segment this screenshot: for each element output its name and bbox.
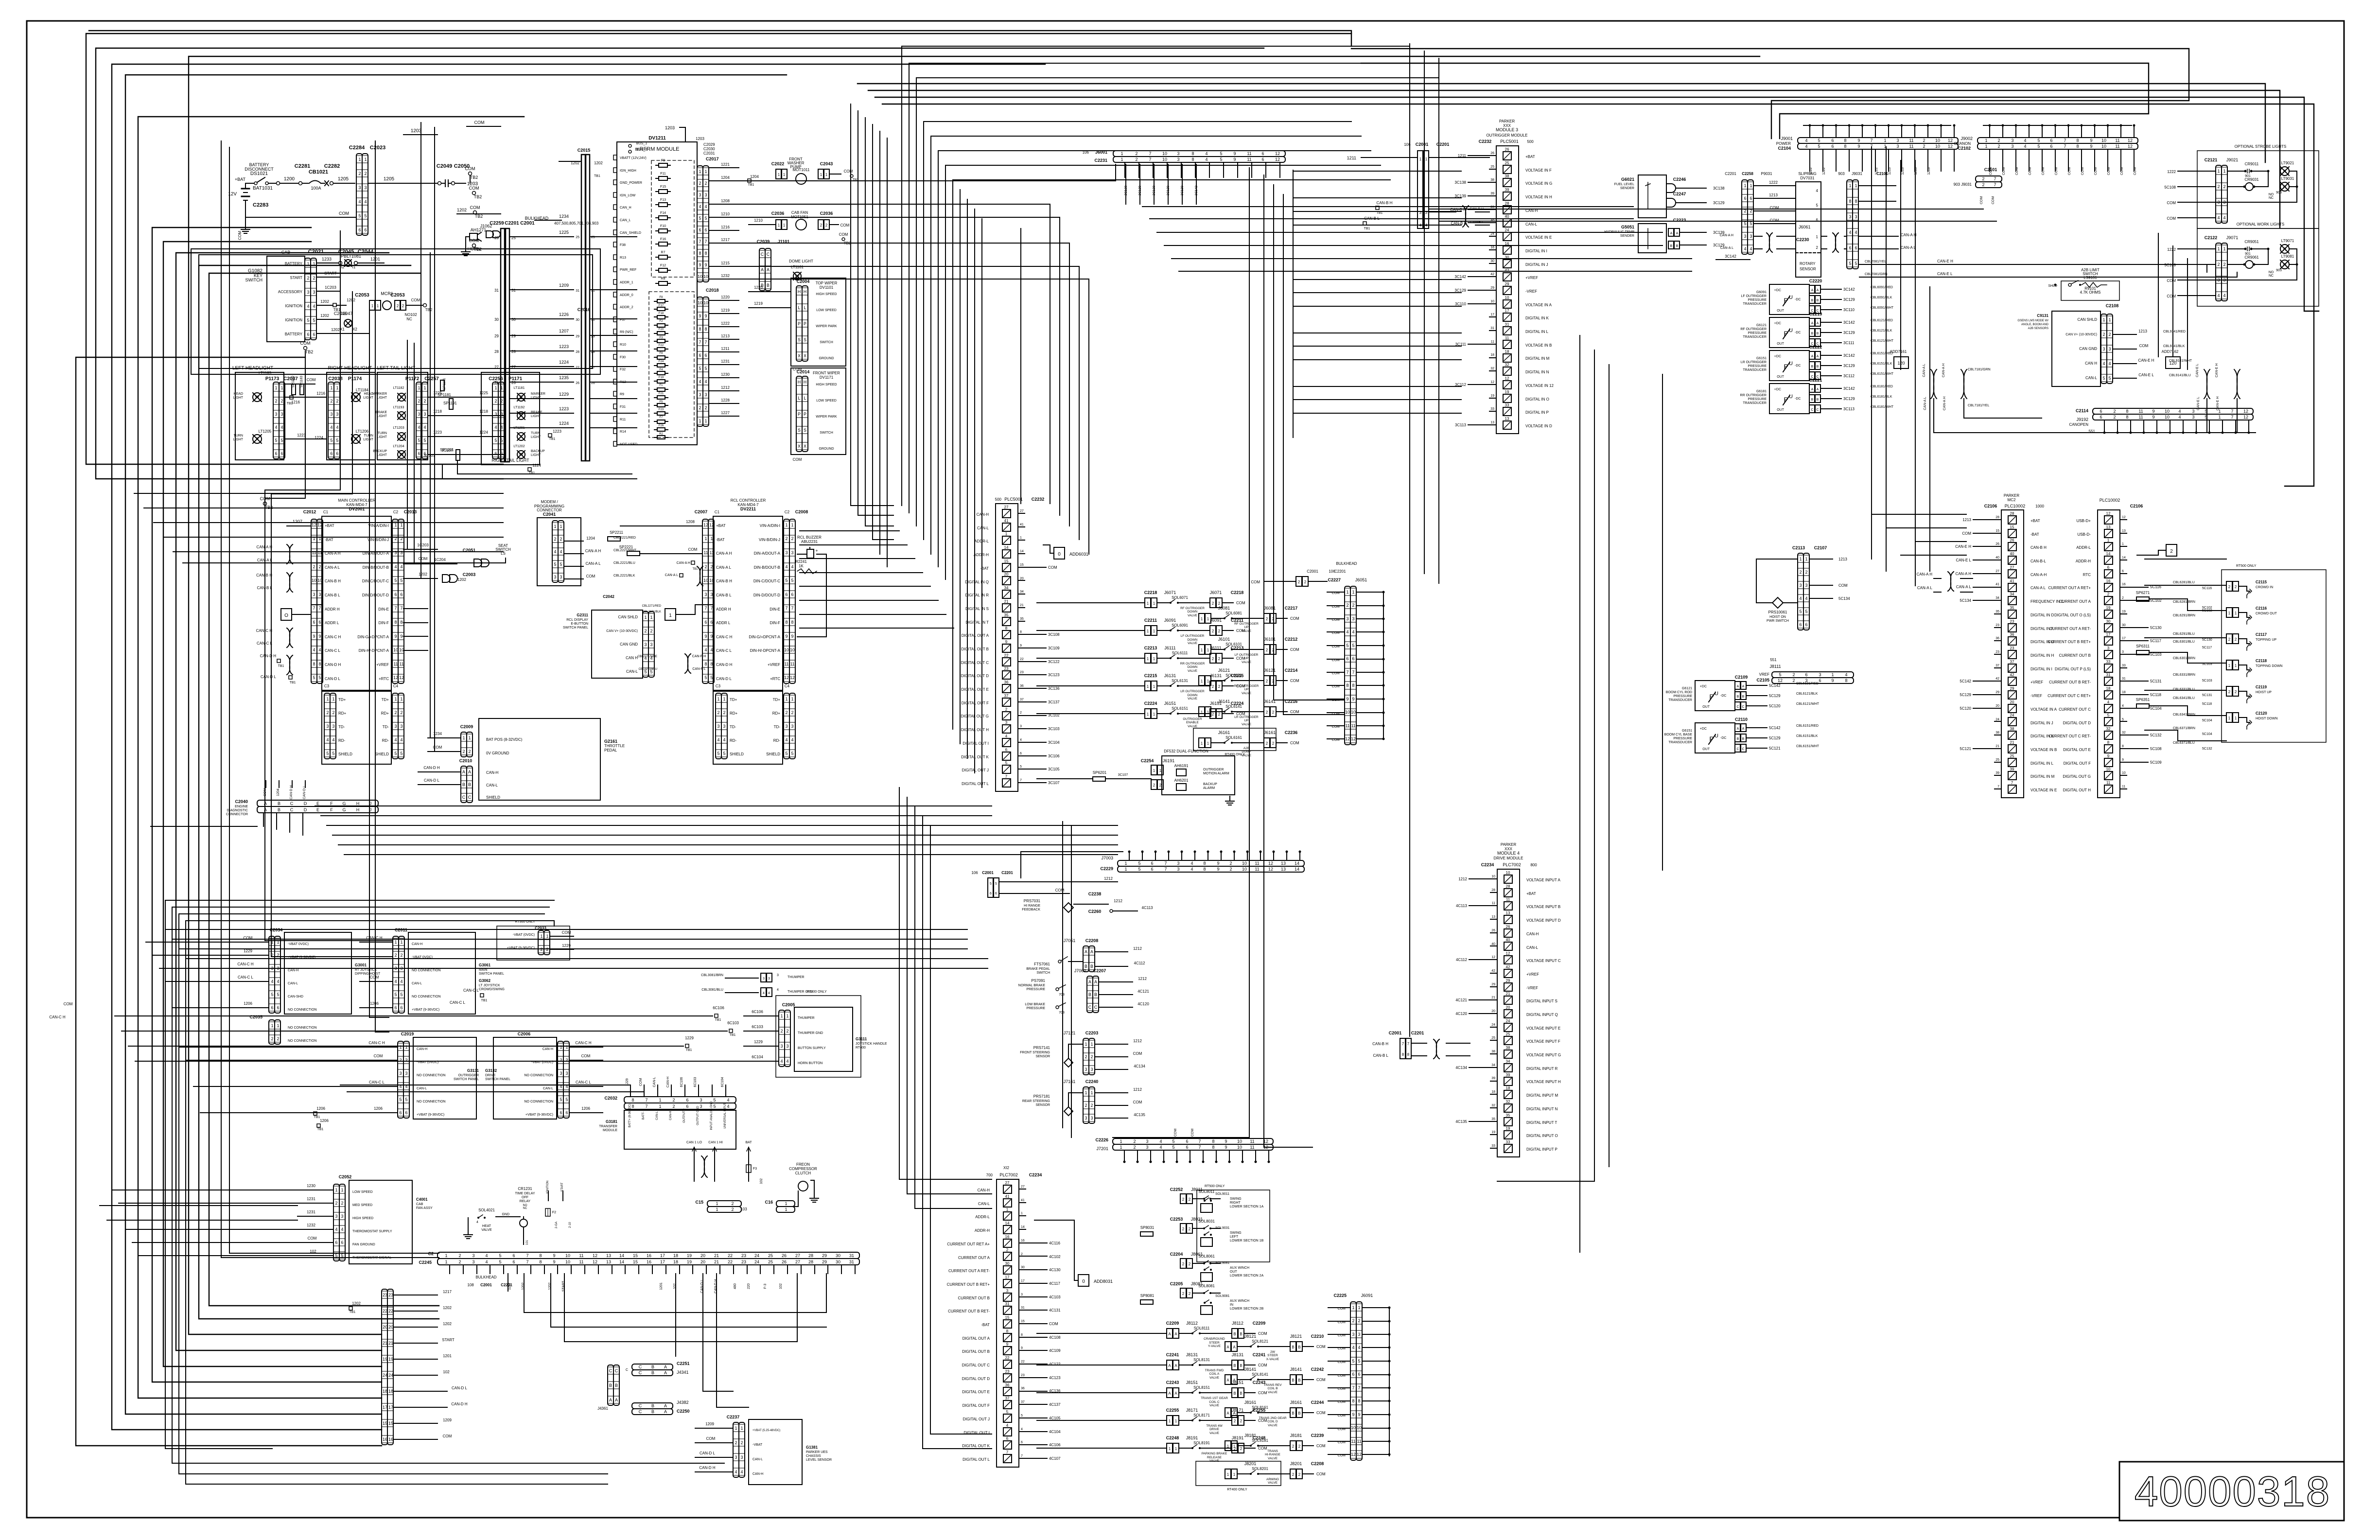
svg-text:18: 18: [1506, 1086, 1510, 1090]
bulkhead C2227 J6051: [1307, 561, 1384, 745]
svg-text:3: 3: [335, 1214, 337, 1219]
svg-text:5: 5: [1138, 861, 1140, 866]
svg-text:CURRENT OUT C RET+: CURRENT OUT C RET+: [2047, 694, 2091, 698]
svg-text:J6121: J6121: [1264, 668, 1276, 673]
svg-text:DIAGNOSTIC: DIAGNOSTIC: [227, 809, 248, 812]
svg-text:C2030: C2030: [703, 147, 715, 151]
svg-text:G2161: G2161: [604, 739, 617, 744]
svg-text:COM: COM: [1258, 1391, 1267, 1395]
svg-text:C2007: C2007: [695, 509, 708, 514]
svg-text:35: 35: [2010, 606, 2014, 610]
svg-text:DIGITAL OUT K: DIGITAL OUT K: [962, 1444, 990, 1448]
svg-text:VALVE: VALVE: [1268, 1424, 1278, 1427]
svg-text:8: 8: [1407, 1052, 1410, 1057]
svg-text:COM: COM: [339, 211, 349, 216]
svg-text:CBL9141/BLU: CBL9141/BLU: [2169, 374, 2191, 377]
wire center horizontal: [332, 835, 1118, 836]
coil C2115 CROWD IN: [2226, 580, 2273, 598]
svg-text:C2042: C2042: [603, 595, 614, 599]
svg-text:5C129: 5C129: [1769, 736, 1781, 740]
svg-text:SENDER: SENDER: [1620, 187, 1634, 190]
svg-text:NO CONNECTION: NO CONNECTION: [525, 1074, 554, 1077]
svg-text:3: 3: [554, 575, 556, 579]
svg-text:IGNITION: IGNITION: [285, 318, 302, 322]
svg-text:DIN-C/DOUT-C: DIN-C/DOUT-C: [362, 579, 389, 583]
wire taillight bottom routes: [428, 460, 637, 479]
svg-text:STEER: STEER: [1209, 1341, 1220, 1345]
svg-text:3C142: 3C142: [1843, 320, 1855, 325]
svg-text:41: 41: [1021, 1199, 1025, 1202]
svg-text:RF OUTRIGGER: RF OUTRIGGER: [1740, 328, 1767, 331]
svg-text:DV2211: DV2211: [740, 507, 756, 511]
svg-text:1: 1: [565, 1045, 568, 1050]
wire COM label top: [467, 120, 501, 126]
svg-text:TB2: TB2: [475, 214, 483, 219]
svg-text:6: 6: [2122, 570, 2124, 573]
svg-text:COM: COM: [474, 120, 485, 125]
svg-text:G3111: G3111: [856, 1037, 867, 1041]
svg-text:HEAD: HEAD: [234, 392, 243, 396]
svg-text:COM: COM: [2167, 294, 2176, 298]
svg-text:-DC: -DC: [1795, 331, 1801, 334]
svg-text:O: O: [284, 613, 288, 618]
svg-text:CAN-C H: CAN-C H: [325, 635, 341, 639]
svg-text:34: 34: [1506, 1059, 1510, 1064]
svg-text:5C103: 5C103: [2150, 652, 2162, 657]
svg-text:J9021: J9021: [2226, 157, 2239, 162]
svg-text:2: 2: [1005, 707, 1008, 712]
svg-text:6: 6: [394, 592, 397, 597]
wire: [1409, 44, 1410, 1036]
svg-text:CAN-B H: CAN-B H: [1377, 201, 1393, 205]
svg-text:1: 1: [2218, 415, 2221, 420]
svg-text:X: X: [798, 353, 801, 358]
svg-text:6: 6: [1186, 1145, 1188, 1150]
svg-text:4C121: 4C121: [1455, 998, 1467, 1002]
svg-text:1: 1: [1124, 861, 1127, 866]
svg-text:F13: F13: [660, 198, 666, 202]
svg-text:42: 42: [1995, 677, 1999, 681]
svg-text:8: 8: [539, 1253, 542, 1258]
svg-text:C: C: [462, 795, 466, 800]
svg-text:2: 2: [785, 536, 787, 541]
svg-text:CBL6371/BLU: CBL6371/BLU: [2173, 741, 2195, 745]
svg-text:10: 10: [1357, 1425, 1362, 1430]
svg-text:6: 6: [686, 1104, 688, 1109]
svg-text:CAN-H: CAN-H: [666, 1077, 670, 1087]
svg-text:CR9061: CR9061: [2244, 255, 2259, 260]
svg-text:DIGITAL OUT G: DIGITAL OUT G: [2063, 774, 2091, 779]
svg-text:13: 13: [606, 1260, 611, 1264]
svg-text:VALVE: VALVE: [1242, 692, 1252, 695]
svg-text:J8191: J8191: [1186, 1435, 1198, 1440]
svg-text:CURRENT OUT B RET-: CURRENT OUT B RET-: [948, 1309, 990, 1313]
wire main right: [403, 636, 428, 637]
svg-text:1: 1: [400, 940, 402, 945]
svg-text:4: 4: [699, 379, 701, 384]
svg-text:6: 6: [1020, 752, 1022, 755]
wire center horizontal: [338, 844, 1118, 845]
svg-text:LOWER SECTION 1A: LOWER SECTION 1A: [1230, 1205, 1264, 1208]
svg-text:TD-: TD-: [338, 725, 345, 729]
svg-text:SWITCH PANEL: SWITCH PANEL: [479, 972, 504, 976]
svg-text:2: 2: [2170, 549, 2173, 554]
svg-text:LIGHT: LIGHT: [363, 438, 373, 441]
svg-text:+VREF: +VREF: [1525, 276, 1538, 280]
svg-text:DIGITAL OUT D: DIGITAL OUT D: [2063, 721, 2091, 725]
svg-text:5: 5: [2108, 376, 2111, 381]
svg-text:2: 2: [335, 1201, 337, 1206]
svg-text:C2115: C2115: [2256, 580, 2267, 584]
connector C2113 C2107: [1792, 545, 1850, 630]
svg-text:CAN-L: CAN-L: [1526, 945, 1539, 950]
svg-text:1231: 1231: [307, 1210, 315, 1214]
svg-text:2: 2: [405, 1058, 407, 1063]
svg-text:21: 21: [383, 1341, 387, 1346]
svg-text:4: 4: [1190, 867, 1193, 872]
svg-text:RD-: RD-: [730, 738, 737, 743]
svg-text:TRANS 2ND GEAR: TRANS 2ND GEAR: [1259, 1417, 1286, 1420]
svg-text:10: 10: [317, 578, 322, 583]
svg-text:7: 7: [704, 606, 707, 611]
svg-text:6: 6: [1186, 1139, 1188, 1144]
svg-text:2: 2: [1298, 580, 1300, 584]
svg-text:F: F: [330, 807, 333, 812]
svg-text:PLC5001: PLC5001: [1004, 497, 1023, 502]
svg-text:5: 5: [394, 992, 397, 997]
svg-text:5: 5: [1220, 151, 1222, 156]
svg-text:J7003: J7003: [1101, 856, 1113, 860]
svg-text:COM: COM: [1258, 1331, 1267, 1336]
svg-text:2: 2: [1212, 684, 1214, 689]
svg-text:4C106: 4C106: [1049, 1443, 1061, 1447]
svg-text:DIGITAL OUT A: DIGITAL OUT A: [962, 633, 989, 638]
svg-text:F4: F4: [659, 368, 663, 371]
solenoid SOL8061: [1170, 1252, 1220, 1268]
svg-text:C: C: [1736, 705, 1739, 709]
svg-text:C2201: C2201: [1411, 1031, 1424, 1035]
svg-text:1: 1: [1021, 1212, 1023, 1215]
svg-text:39: 39: [1490, 192, 1494, 195]
svg-text:CBL6151/BLK: CBL6151/BLK: [1871, 362, 1892, 366]
svg-text:COIL A: COIL A: [1209, 1372, 1220, 1376]
block FRONT WIPER DV1171: [791, 368, 846, 462]
wire: [739, 204, 1050, 504]
svg-text:1209: 1209: [559, 283, 569, 288]
svg-text:5: 5: [1805, 609, 1807, 614]
svg-text:C2255: C2255: [1166, 1408, 1179, 1413]
svg-text:27: 27: [511, 365, 516, 369]
svg-text:7: 7: [1994, 176, 1996, 181]
svg-text:CROWD/SWING: CROWD/SWING: [479, 988, 505, 991]
svg-text:SWITCH PANEL: SWITCH PANEL: [485, 1078, 510, 1081]
junction COM TB2 right of battery: [465, 166, 478, 183]
svg-text:23: 23: [1995, 624, 1999, 627]
horn AH1271 J1062: [461, 224, 492, 256]
svg-text:8: 8: [631, 1098, 634, 1102]
svg-text:VOLTAGE INPUT D: VOLTAGE INPUT D: [1526, 918, 1561, 923]
svg-text:DIGITAL INPUT R: DIGITAL INPUT R: [1526, 1067, 1558, 1071]
svg-text:VALVE: VALVE: [1209, 1404, 1220, 1407]
svg-text:12: 12: [1263, 1139, 1268, 1144]
svg-text:H: H: [804, 289, 807, 294]
svg-text:5: 5: [1138, 867, 1140, 872]
svg-text:4: 4: [699, 204, 701, 209]
svg-text:8: 8: [1212, 1145, 1214, 1150]
svg-text:4: 4: [1816, 189, 1819, 193]
svg-text:LT1181: LT1181: [514, 386, 525, 390]
svg-text:SOL8081: SOL8081: [1198, 1284, 1215, 1288]
svg-text:1: 1: [1233, 1472, 1236, 1477]
svg-text:C2259: C2259: [490, 221, 504, 226]
svg-text:26: 26: [1491, 929, 1495, 932]
svg-text:CBL3081/BRN: CBL3081/BRN: [701, 974, 723, 977]
svg-text:9: 9: [704, 634, 707, 639]
connector J7003 C2229: [1100, 851, 1304, 873]
svg-text:31: 31: [849, 1260, 854, 1264]
svg-text:SP6201: SP6201: [1093, 770, 1107, 775]
svg-text:29: 29: [1505, 282, 1509, 286]
svg-text:9: 9: [699, 314, 701, 318]
wire: [717, 1274, 749, 1407]
wire to solenoid: [1037, 1420, 1167, 1421]
svg-text:X1: X1: [340, 327, 345, 332]
svg-text:CAN-A H: CAN-A H: [1956, 572, 1972, 576]
coil C2119 HOIST UP: [2226, 685, 2272, 703]
svg-text:VOLTAGE IN H: VOLTAGE IN H: [1525, 195, 1552, 199]
svg-text:5C121: 5C121: [1769, 746, 1781, 751]
svg-text:2: 2: [1272, 648, 1275, 652]
svg-text:C2253: C2253: [1170, 1217, 1183, 1222]
svg-text:1201: 1201: [660, 1282, 663, 1290]
svg-text:CAN-A H: CAN-A H: [1901, 233, 1917, 237]
wire to solenoid: [1037, 658, 1145, 659]
wire: [1439, 221, 1996, 222]
svg-text:1: 1: [2107, 538, 2110, 542]
svg-text:J6091: J6091: [1361, 1293, 1373, 1298]
svg-text:7: 7: [1021, 1454, 1023, 1458]
svg-text:COM: COM: [1290, 647, 1299, 652]
svg-text:1232: 1232: [721, 274, 730, 278]
svg-text:1: 1: [1227, 1472, 1229, 1477]
svg-text:C2037: C2037: [283, 376, 298, 382]
svg-text:2: 2: [468, 749, 471, 754]
svg-text:GROUND: GROUND: [819, 357, 834, 360]
svg-text:15: 15: [2010, 525, 2014, 529]
svg-text:ROTARY: ROTARY: [1800, 262, 1816, 266]
svg-text:7: 7: [645, 1104, 647, 1109]
svg-text:PRESSURE: PRESSURE: [1748, 298, 1767, 302]
svg-text:7: 7: [1198, 1145, 1201, 1150]
svg-text:A: A: [1174, 1332, 1177, 1336]
svg-text:C2001: C2001: [1416, 142, 1429, 147]
wire bottom bundle: [915, 807, 992, 1208]
svg-text:4: 4: [332, 737, 334, 742]
svg-text:2: 2: [1272, 741, 1275, 746]
svg-text:C2222: C2222: [1809, 345, 1822, 350]
svg-text:1223: 1223: [559, 406, 569, 411]
svg-text:2: 2: [785, 710, 787, 715]
svg-text:J8181: J8181: [1290, 1433, 1302, 1438]
bulkhead pair small 106: [1251, 577, 1327, 586]
svg-text:2: 2: [1182, 1227, 1185, 1231]
svg-text:SENSOR: SENSOR: [1035, 1055, 1050, 1058]
svg-text:1: 1: [669, 613, 672, 618]
svg-text:2: 2: [358, 171, 361, 176]
svg-text:1212: 1212: [721, 385, 730, 390]
svg-text:2: 2: [2228, 637, 2231, 642]
svg-text:COM: COM: [2139, 344, 2149, 348]
svg-text:ADD8031: ADD8031: [1094, 1279, 1113, 1284]
svg-text:41: 41: [1995, 583, 1999, 586]
svg-text:2: 2: [825, 223, 828, 227]
svg-text:22: 22: [728, 1260, 733, 1264]
svg-text:FUEL LEVEL: FUEL LEVEL: [1614, 183, 1634, 186]
svg-text:1202: 1202: [320, 299, 329, 304]
svg-text:551: 551: [1770, 658, 1777, 662]
svg-text:1216: 1216: [721, 225, 730, 229]
svg-text:0: 0: [1082, 1279, 1085, 1284]
svg-text:TD+: TD+: [382, 698, 389, 702]
svg-text:COM: COM: [1258, 1363, 1267, 1367]
svg-text:0: 0: [1058, 552, 1061, 557]
svg-text:2: 2: [271, 1036, 273, 1041]
svg-text:LOWER SECTION 1B: LOWER SECTION 1B: [1230, 1239, 1264, 1242]
svg-text:F1: F1: [659, 384, 663, 387]
svg-text:5: 5: [704, 675, 707, 680]
svg-text:FTS7061: FTS7061: [1034, 962, 1050, 966]
svg-text:10: 10: [1506, 871, 1510, 875]
svg-text:1: 1: [560, 524, 562, 529]
svg-text:1C203: 1C203: [325, 285, 336, 290]
wire right vertical: [1900, 160, 1901, 369]
svg-text:1: 1: [399, 1045, 402, 1050]
svg-text:2: 2: [1212, 712, 1214, 717]
solenoid SOL6071: [1144, 590, 1245, 617]
svg-text:C2001: C2001: [520, 221, 535, 226]
svg-text:1: 1: [1175, 1447, 1177, 1451]
svg-text:C2241: C2241: [1166, 1352, 1179, 1357]
svg-text:CURRENT OUT B: CURRENT OUT B: [2059, 653, 2091, 658]
motor MOT1011 front washer pump: [771, 157, 859, 184]
svg-text:34: 34: [1995, 596, 1999, 600]
svg-text:LT9081: LT9081: [2281, 254, 2294, 259]
svg-text:BRAKE PEDAL: BRAKE PEDAL: [1026, 967, 1050, 971]
svg-text:35: 35: [1491, 1118, 1495, 1121]
svg-text:C2257: C2257: [424, 376, 439, 382]
svg-text:3: 3: [2192, 415, 2194, 420]
svg-text:5C118: 5C118: [2202, 702, 2212, 706]
svg-text:C: C: [1811, 408, 1813, 412]
svg-text:SWITCH: SWITCH: [1036, 971, 1050, 975]
svg-text:3: 3: [341, 1214, 343, 1219]
svg-text:1: 1: [659, 1098, 661, 1102]
svg-text:PBLT1081: PBLT1081: [341, 254, 361, 259]
svg-text:42: 42: [1490, 273, 1494, 276]
svg-text:1: 1: [785, 697, 787, 701]
svg-text:20: 20: [1995, 704, 1999, 708]
svg-text:40: 40: [1491, 943, 1495, 946]
svg-text:2-10: 2-10: [569, 1222, 572, 1228]
svg-text:6: 6: [710, 620, 713, 625]
svg-text:3: 3: [313, 592, 315, 597]
svg-text:SOL9061: SOL9061: [1215, 1261, 1230, 1265]
svg-text:PRS10061: PRS10061: [1768, 610, 1787, 614]
svg-text:NO: NO: [2269, 193, 2274, 196]
svg-text:1209: 1209: [443, 1418, 452, 1422]
svg-text:16: 16: [383, 1437, 387, 1442]
svg-text:7: 7: [1352, 670, 1354, 675]
svg-text:1: 1: [1006, 1207, 1009, 1212]
svg-text:1: 1: [1020, 536, 1022, 540]
svg-text:J6151: J6151: [1164, 701, 1176, 706]
svg-text:CURRENT OUT A RET-: CURRENT OUT A RET-: [2049, 627, 2091, 631]
svg-text:1: 1: [1750, 183, 1752, 188]
svg-text:2: 2: [1159, 783, 1162, 787]
svg-text:1: 1: [358, 157, 361, 162]
svg-text:5: 5: [1172, 1139, 1174, 1144]
svg-text:COM: COM: [1316, 1444, 1326, 1448]
svg-text:2: 2: [1997, 144, 2000, 149]
svg-text:5: 5: [713, 1104, 716, 1109]
wire: [347, 1092, 644, 1097]
wire rcl right: [800, 614, 946, 615]
svg-text:DIGITAL OUT J: DIGITAL OUT J: [962, 768, 989, 772]
svg-text:START: START: [324, 271, 337, 276]
svg-text:VBATT (12V,24V): VBATT (12V,24V): [620, 157, 647, 160]
svg-text:24: 24: [1490, 232, 1494, 236]
svg-text:21: 21: [388, 1341, 393, 1346]
svg-text:1: 1: [277, 940, 279, 945]
solenoid SOL6121: [1199, 668, 1299, 695]
connector C2 C2245 long strip: [419, 1251, 859, 1274]
svg-text:DIGITAL INPUT P: DIGITAL INPUT P: [1526, 1147, 1557, 1152]
svg-text:G3132: G3132: [485, 1068, 497, 1073]
svg-text:OUT: OUT: [1777, 342, 1785, 346]
svg-text:10: 10: [312, 578, 316, 583]
svg-text:6: 6: [1352, 1372, 1354, 1377]
box RT400 ONLY a2b: [1193, 728, 1276, 756]
svg-text:F21: F21: [659, 392, 664, 395]
svg-text:12: 12: [1263, 1145, 1268, 1150]
svg-text:903: 903: [1838, 172, 1845, 176]
svg-text:4: 4: [1352, 1345, 1354, 1350]
svg-text:2: 2: [2102, 332, 2105, 337]
svg-text:12: 12: [1275, 157, 1280, 162]
wire 1202 TB1: [317, 298, 355, 316]
svg-text:J6001: J6001: [1095, 150, 1107, 155]
svg-text:1: 1: [554, 524, 556, 529]
svg-text:C2240: C2240: [1085, 1079, 1099, 1084]
svg-text:28: 28: [1491, 889, 1495, 892]
connector C2226 J7201: [1095, 1129, 1273, 1163]
svg-text:4C109: 4C109: [1049, 1348, 1061, 1353]
svg-text:1: 1: [723, 697, 725, 701]
svg-text:AH1271: AH1271: [471, 227, 487, 232]
svg-text:C2032: C2032: [604, 1096, 617, 1101]
svg-text:VOLTAGE IN A: VOLTAGE IN A: [1525, 303, 1552, 307]
svg-text:5C131: 5C131: [2150, 679, 2162, 683]
svg-text:1230: 1230: [721, 372, 730, 377]
svg-text:MED SPEED: MED SPEED: [352, 1204, 372, 1207]
svg-text:3: 3: [399, 1071, 402, 1076]
wire CAN-E H: [1915, 264, 2207, 272]
svg-text:4: 4: [400, 737, 402, 742]
svg-text:9: 9: [318, 634, 321, 639]
svg-text:SHIELD: SHIELD: [338, 752, 352, 756]
svg-text:7: 7: [1006, 1450, 1009, 1454]
svg-text:2: 2: [280, 399, 283, 403]
